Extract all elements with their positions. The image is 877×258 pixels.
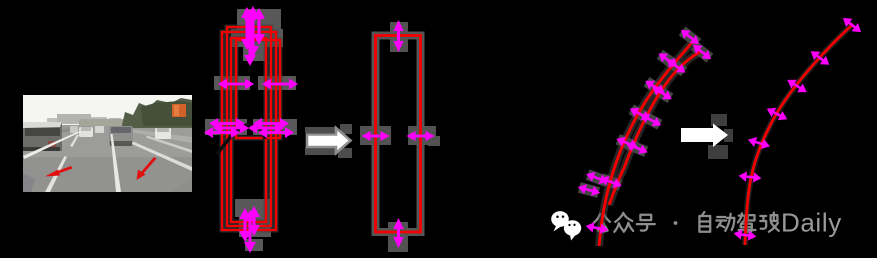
- lane line far right: [146, 136, 192, 154]
- white car far right: [155, 128, 171, 139]
- separator dot: [674, 221, 678, 225]
- hanzi: shi: [760, 212, 778, 231]
- right lane curve: [745, 24, 853, 245]
- left lane curve A: [599, 40, 694, 246]
- lane line left dashed: [45, 156, 67, 192]
- bounding box Q: [222, 32, 276, 230]
- gray arrow halos: [360, 22, 440, 252]
- right arrow: [407, 131, 435, 141]
- hanzi: hao: [637, 215, 655, 231]
- orange sign in trees: [172, 104, 186, 117]
- bounding box P: [227, 27, 271, 226]
- hanzi: dong: [716, 214, 734, 231]
- left lane curve B: [609, 52, 700, 205]
- curb strip right: [122, 128, 192, 143]
- svg-text:Daily: Daily: [781, 208, 842, 238]
- wechat icon eyes: [556, 215, 575, 226]
- buildings on horizon: [57, 114, 91, 124]
- CURVES: overlapping lane curves: [577, 14, 865, 246]
- hanzi: zhong: [614, 213, 633, 232]
- MIDDLE CLUSTER: overlapping detection boxes: [204, 6, 298, 253]
- sky: [23, 95, 192, 129]
- hanzi strokes: gong: [594, 212, 779, 232]
- road surface: [23, 125, 192, 192]
- left edge arrows: [209, 118, 245, 129]
- bounding box S: [236, 40, 280, 138]
- jpeg-artifact gray blobs: [205, 9, 297, 251]
- single bounding box: [376, 36, 421, 233]
- right edge arrows: [253, 118, 289, 129]
- lane line center dashed: [111, 134, 122, 192]
- mid bushes: [79, 119, 125, 126]
- left arrow: [362, 131, 390, 141]
- roadside median left: [23, 128, 77, 136]
- black scribble arc: [217, 125, 265, 154]
- van on left: [23, 122, 62, 151]
- distant cars center: [79, 127, 93, 137]
- WATERMARK: [551, 208, 842, 241]
- red arrow right in photo: [141, 157, 157, 174]
- hanzi: zi: [699, 212, 710, 232]
- lane line left solid: [23, 132, 80, 160]
- red arrow left in photo: [45, 157, 157, 180]
- bottom edge arrows: [239, 208, 251, 242]
- gray SUV center right: [109, 126, 133, 146]
- gray halo around box: [376, 36, 421, 233]
- trees right side: [122, 98, 192, 128]
- white block arrow 2 (solid): [681, 124, 728, 148]
- wechat icon small bubble: [564, 220, 581, 236]
- bottom arrow: [393, 218, 403, 248]
- bounding box R: [231, 38, 266, 222]
- bottom-right shade: [171, 179, 192, 192]
- white block arrow 1 (outlined): [305, 124, 352, 158]
- wechat icon big bubble: [551, 211, 581, 240]
- halos under left-curve arrows: [679, 27, 702, 48]
- SINGLE BOX result: [360, 20, 440, 252]
- gray halos along box edges: [222, 27, 280, 230]
- hanzi: jia: [738, 213, 756, 232]
- lane line right solid: [132, 142, 192, 172]
- PHOTO: dashcam road scene: [23, 95, 192, 192]
- bottom-left dark patch: [23, 173, 35, 192]
- top edge arrows: [241, 7, 253, 50]
- top arrow: [393, 20, 403, 52]
- gray artifacts near arrow 2 head: [708, 114, 733, 159]
- gray halos under left curves: [599, 40, 700, 246]
- left curve arrows: [678, 26, 703, 48]
- halo under right curve: [745, 24, 853, 245]
- right curve arrows: [840, 14, 865, 36]
- WHITE ARROWS: [305, 114, 733, 159]
